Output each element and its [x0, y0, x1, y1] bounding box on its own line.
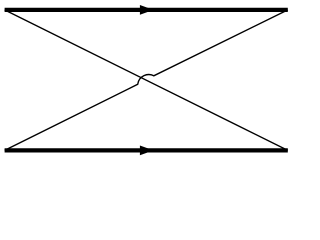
- descending crossover wire: [5, 10, 288, 151]
- top wire: [5, 8, 288, 12]
- arrowhead on top wire: [140, 5, 154, 15]
- ascending crossover wire with hop: [5, 10, 288, 151]
- bottom wire: [5, 148, 288, 152]
- arrowhead on bottom wire: [140, 146, 154, 156]
